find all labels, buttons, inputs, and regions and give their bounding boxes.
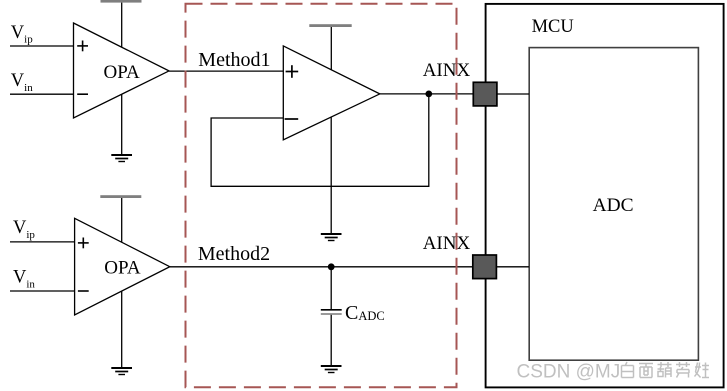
U2 plus input symbol <box>286 65 299 78</box>
U1 plus input symbol <box>77 41 88 52</box>
wire U1 output (Method1 net) to U2 + <box>169 70 283 72</box>
wire Vip to U3 + <box>10 241 75 243</box>
U2 minus input symbol <box>285 118 299 120</box>
wire pin AINX1 to ADC <box>485 93 529 95</box>
wire Vin to U3 - <box>10 290 75 292</box>
MCU box <box>486 4 724 388</box>
label AINX (top) <box>423 60 471 81</box>
svg-text:AINX: AINX <box>423 233 471 254</box>
ADC box <box>529 48 698 361</box>
U1 minus input symbol <box>77 93 88 95</box>
hanzi lu <box>676 362 690 378</box>
label Vin (bottom) <box>13 268 35 291</box>
hanzi mian <box>639 364 653 378</box>
svg-text:CSDN @MJ: CSDN @MJ <box>517 362 621 383</box>
svg-text:Method2: Method2 <box>198 243 270 265</box>
label MCU <box>532 17 574 37</box>
capacitor C_ADC <box>321 267 342 366</box>
watermark CSDN <box>517 362 710 383</box>
hanzi hu <box>658 362 672 378</box>
op-amp U3 (OPA bottom-left) <box>75 218 170 315</box>
power rail bar VCC2 (buffer supply) <box>309 24 351 27</box>
power rail bar VCC3 (bottom-left op-amp supply) <box>100 195 141 198</box>
label ADC <box>593 195 634 216</box>
pin AINX1 (MCU pad) <box>473 82 497 106</box>
svg-text:MCU: MCU <box>532 17 574 37</box>
ground GND4 (capacitor ground) <box>321 366 342 373</box>
label Vip (top) <box>11 23 33 46</box>
wire VCC1 to U1 top <box>121 3 123 47</box>
feedback wire U2 output to U2 - <box>211 94 429 186</box>
svg-text:ADC: ADC <box>593 195 634 216</box>
label Vin (top) <box>11 71 33 94</box>
U3 minus input symbol <box>78 290 89 292</box>
wire U3 output (Method2 net) to pin AINX2 <box>170 266 473 268</box>
U3 plus input symbol <box>78 238 89 249</box>
wire pin AINX2 to ADC <box>485 266 529 268</box>
wire VCC2 to U2 top <box>330 27 332 70</box>
svg-text:OPA: OPA <box>104 62 141 83</box>
pin AINX2 (MCU pad) <box>473 255 497 279</box>
wire U2 bottom to ground <box>330 117 332 234</box>
svg-text:OPA: OPA <box>104 258 141 279</box>
ground GND1 <box>111 155 132 162</box>
svg-text:AINX: AINX <box>423 60 471 81</box>
label Vip (bottom) <box>13 218 35 241</box>
ground GND2 <box>321 234 342 241</box>
svg-text:Method1: Method1 <box>198 49 270 71</box>
op-amp U1 (OPA top-left) <box>74 23 170 118</box>
wire U3 bottom to ground <box>121 291 123 368</box>
wire U1 bottom to ground <box>121 94 123 155</box>
label AINX (bottom) <box>423 233 471 254</box>
wire Vin to U1 - <box>10 93 74 95</box>
power rail bar VCC1 (top-left op-amp supply) <box>101 0 142 3</box>
label Method2 <box>198 243 270 265</box>
label Method1 <box>198 49 270 71</box>
ground GND3 <box>111 368 132 375</box>
wire U2 output to pin AINX1 <box>380 93 473 95</box>
node B (junction dot on Method2 net) <box>328 263 335 270</box>
dashed region box (Methods) <box>186 4 457 387</box>
wire VCC3 to U3 top <box>121 198 123 243</box>
label C_ADC <box>345 302 385 324</box>
hanzi bai <box>622 362 634 378</box>
hanzi wa <box>695 363 710 378</box>
node A (junction dot on U2 output) <box>425 91 432 98</box>
wire Vip to U1 + <box>10 45 74 47</box>
op-amp U2 (buffer) <box>283 46 380 140</box>
